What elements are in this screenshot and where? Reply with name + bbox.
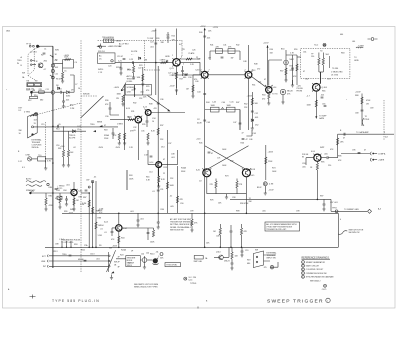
parts list note xyxy=(134,283,158,289)
svg-text:C29: C29 xyxy=(197,59,200,61)
svg-text:-150V: -150V xyxy=(98,147,104,149)
stub components mid bus xyxy=(136,213,143,227)
svg-text:6-45: 6-45 xyxy=(196,170,200,172)
svg-text:R52: R52 xyxy=(244,104,247,106)
svg-text:.005: .005 xyxy=(324,154,328,156)
tube pin ticks V24 xyxy=(134,109,146,118)
test point TP94 xyxy=(331,210,367,213)
svg-text:C99: C99 xyxy=(190,211,193,213)
svg-text:R99: R99 xyxy=(64,211,67,213)
svg-text:AUTO: AUTO xyxy=(57,187,63,190)
switch label box xyxy=(126,256,141,268)
svg-text:SEE DIAG 2: SEE DIAG 2 xyxy=(310,280,321,283)
svg-text:C08: C08 xyxy=(216,236,219,238)
svg-text:470K: 470K xyxy=(49,205,54,207)
wire cathodes xyxy=(207,177,247,194)
node ext trig xyxy=(24,111,38,116)
svg-text:GRID: GRID xyxy=(354,60,359,62)
svg-text:1W: 1W xyxy=(366,104,369,106)
svg-text:R42: R42 xyxy=(236,45,239,47)
svg-text:C97 .001: C97 .001 xyxy=(330,202,338,204)
resistor R34 xyxy=(123,133,126,145)
label td inner xyxy=(329,56,331,68)
svg-text:C20: C20 xyxy=(108,66,111,68)
tube V94 xyxy=(302,154,321,161)
label sweep labels xyxy=(320,147,334,151)
ref item 4 xyxy=(302,272,327,275)
connector labels left xyxy=(41,256,47,268)
coupling switch box SW23 xyxy=(103,39,113,43)
mark between pairs xyxy=(222,108,224,110)
svg-text:R73: R73 xyxy=(225,176,228,178)
svg-text:C-45: C-45 xyxy=(212,101,216,103)
label top bus v33a xyxy=(199,31,212,35)
stub near 158 xyxy=(157,213,160,229)
label bottom right of box xyxy=(340,219,341,221)
svg-text:5: 5 xyxy=(302,273,303,275)
label chain c52 xyxy=(251,113,258,130)
label v14 left xyxy=(144,155,152,158)
wire to connectors xyxy=(341,153,370,154)
svg-text:180K: 180K xyxy=(117,94,122,96)
capacitor C9 xyxy=(55,89,66,94)
marks near v23 top xyxy=(167,32,170,43)
svg-text:1/2: 1/2 xyxy=(197,119,200,121)
transformer box T10 xyxy=(32,157,53,161)
svg-text:.02: .02 xyxy=(73,147,76,149)
tube pin ticks V33B xyxy=(245,71,253,79)
ground R17 xyxy=(67,157,70,167)
transistor Q114 xyxy=(214,255,223,260)
dashes into v23 xyxy=(144,69,160,71)
tube V34 xyxy=(263,43,272,94)
label left rows x xyxy=(53,251,57,253)
label near v84 left xyxy=(49,196,54,208)
svg-text:1M: 1M xyxy=(76,200,79,202)
sc mark xyxy=(184,277,196,282)
label v84 row xyxy=(57,186,85,207)
svg-text:-150V: -150V xyxy=(115,147,121,149)
svg-text:C-55: C-55 xyxy=(230,101,234,103)
svg-text:C38: C38 xyxy=(171,154,174,156)
svg-text:C30: C30 xyxy=(105,116,108,118)
tunnel diode box TD1 (dashed) xyxy=(301,43,350,78)
label chain 252 more xyxy=(244,104,258,127)
label near v34 out xyxy=(272,94,278,96)
label between x167-x177 xyxy=(170,178,174,180)
svg-text:R50: R50 xyxy=(270,49,273,51)
svg-text:C7: C7 xyxy=(75,84,77,86)
svg-text:-4.7: -4.7 xyxy=(307,96,310,98)
label near tp94 xyxy=(332,208,337,210)
main lower bus xyxy=(62,212,338,214)
svg-text:464: 464 xyxy=(340,34,343,36)
svg-text:C62: C62 xyxy=(305,79,308,81)
svg-text:6DJ8: 6DJ8 xyxy=(251,169,255,171)
svg-text:TO TD: TO TD xyxy=(272,94,278,96)
svg-text:47: 47 xyxy=(364,150,366,152)
label pot row xyxy=(28,100,43,103)
label misc left2 xyxy=(56,145,76,149)
svg-text:10: 10 xyxy=(78,88,80,90)
svg-text:1 MEG: 1 MEG xyxy=(172,73,178,75)
label v23 out xyxy=(192,50,198,59)
dashed gang line xyxy=(98,40,182,70)
svg-text:330K: 330K xyxy=(181,171,186,173)
label center bus xyxy=(160,99,164,141)
svg-text:R18: R18 xyxy=(104,130,107,132)
capacitor C97 xyxy=(322,199,325,211)
bus contact a xyxy=(50,55,54,58)
svg-text:PLATE: PLATE xyxy=(189,52,196,55)
lower bus 2 xyxy=(45,246,338,248)
label d52 glyph xyxy=(251,119,253,121)
label grid2 xyxy=(172,55,184,66)
svg-text:1M: 1M xyxy=(127,69,130,71)
svg-text:C43: C43 xyxy=(207,122,210,124)
svg-text:4.7M: 4.7M xyxy=(269,184,274,186)
cluster R108 xyxy=(122,228,155,244)
svg-text:+ -: + - xyxy=(131,54,134,56)
label out bus xyxy=(249,198,252,203)
svg-text:584: 584 xyxy=(326,54,329,56)
c075 mark xyxy=(322,284,327,291)
svg-text:SW: SW xyxy=(255,250,258,252)
label divider stack xyxy=(83,197,102,237)
long vertical d xyxy=(167,130,169,213)
resistor R24 xyxy=(170,72,178,79)
wire ne2 to td xyxy=(294,49,301,57)
diode D9 xyxy=(66,91,74,98)
wire v14 out xyxy=(162,150,178,165)
label external trigger text xyxy=(32,139,42,150)
label near j25 wires xyxy=(274,262,278,267)
svg-text:SW: SW xyxy=(109,248,112,250)
svg-text:R38: R38 xyxy=(149,104,152,106)
svg-text:R2: R2 xyxy=(41,55,43,57)
label -150V row xyxy=(98,147,134,149)
svg-text:C84: C84 xyxy=(63,190,66,192)
label q114 xyxy=(216,252,230,263)
svg-text:R65: R65 xyxy=(322,91,325,93)
wire center bus xyxy=(157,66,159,168)
svg-text:+225V: +225V xyxy=(263,43,269,45)
svg-text:6.3: 6.3 xyxy=(22,167,25,169)
node junction B xyxy=(134,88,136,90)
label near gate line xyxy=(343,133,345,140)
svg-text:470: 470 xyxy=(154,108,157,110)
wire slope line xyxy=(58,130,86,132)
resistor R86 xyxy=(73,198,79,205)
svg-text:C32: C32 xyxy=(133,127,136,129)
capacitor C118 xyxy=(230,259,233,270)
svg-text:R20 2-8: R20 2-8 xyxy=(98,51,105,53)
label div bottom xyxy=(81,249,85,252)
svg-text:C15: C15 xyxy=(41,124,44,126)
neon NE2 xyxy=(284,50,294,80)
label coupling box xyxy=(102,37,121,43)
label ne2 area2 xyxy=(280,71,297,79)
label near td bottom xyxy=(305,79,331,81)
resistor R104 xyxy=(111,236,120,243)
svg-text:R81: R81 xyxy=(49,196,52,198)
label v33 xyxy=(196,70,277,90)
wire pot to bus xyxy=(33,91,53,93)
resistor R66 xyxy=(307,100,318,107)
svg-text:SW: SW xyxy=(22,73,25,75)
svg-text:5: 5 xyxy=(183,64,184,66)
svg-text:.001: .001 xyxy=(140,219,144,221)
resistor R5 network xyxy=(53,57,74,73)
svg-text:T10: T10 xyxy=(38,155,41,157)
svg-text:TO CRT GRID: TO CRT GRID xyxy=(61,242,74,244)
svg-text:270: 270 xyxy=(257,69,260,71)
label sc row xyxy=(128,263,131,265)
dark stub xyxy=(126,170,128,190)
label c24 xyxy=(150,42,154,49)
label wire c20 xyxy=(117,56,125,60)
svg-text:C45: C45 xyxy=(253,133,256,135)
extra text bottom note xyxy=(170,230,184,232)
svg-text:TRIGGER SW SHOWN AT: TRIGGER SW SHOWN AT xyxy=(170,221,193,224)
label wafer right xyxy=(114,262,117,267)
svg-text:4.7: 4.7 xyxy=(44,69,47,71)
label schmitt tubes xyxy=(199,169,255,183)
resistor R71 xyxy=(210,179,218,194)
svg-text:INPUT SW: INPUT SW xyxy=(267,258,276,260)
svg-text:6-14: 6-14 xyxy=(189,279,193,281)
svg-text:+100: +100 xyxy=(196,139,200,141)
svg-text:SWEEP GENERATOR: SWEEP GENERATOR xyxy=(306,261,326,264)
wire aux bus xyxy=(142,67,144,95)
resistor R44 R45 pair xyxy=(205,105,240,130)
svg-text:A-3: A-3 xyxy=(378,208,381,211)
tube V33B xyxy=(245,45,252,130)
label stability xyxy=(26,178,36,193)
svg-text:R12: R12 xyxy=(28,100,31,102)
svg-text:C21: C21 xyxy=(55,74,58,76)
svg-text:R31: R31 xyxy=(131,111,134,113)
label near top coupling xyxy=(131,51,138,56)
svg-text:R98 470K: R98 470K xyxy=(240,203,249,205)
svg-text:C93: C93 xyxy=(302,163,305,165)
bus contact b xyxy=(50,75,54,79)
label row y135 xyxy=(104,134,109,140)
crossover wire B xyxy=(205,146,249,171)
svg-text:D52: D52 xyxy=(255,125,258,127)
label schmitt in xyxy=(181,167,186,174)
resistor under wire xyxy=(127,63,135,79)
screen box xyxy=(125,84,151,95)
svg-text:1M: 1M xyxy=(145,60,148,62)
svg-text:R23: R23 xyxy=(139,65,142,67)
resistor R81 xyxy=(44,193,47,211)
label r11 xyxy=(26,89,49,97)
svg-text:R59: R59 xyxy=(294,49,297,51)
svg-text:10: 10 xyxy=(19,133,21,135)
label near x205 top arrow xyxy=(204,28,206,31)
pin numbers v33 xyxy=(201,70,254,72)
svg-text:.005: .005 xyxy=(207,38,211,40)
svg-text:SW: SW xyxy=(19,130,22,132)
svg-text:.005: .005 xyxy=(262,211,266,213)
auto level note xyxy=(127,75,136,83)
label bus area xyxy=(161,203,184,211)
svg-text:100K: 100K xyxy=(272,171,277,173)
label near c9 top xyxy=(75,84,80,90)
svg-text:R56: R56 xyxy=(290,66,293,68)
svg-text:470: 470 xyxy=(194,79,197,81)
supply chain right xyxy=(355,92,371,127)
svg-text:.001: .001 xyxy=(130,211,134,213)
tube pin ticks V23 xyxy=(172,58,180,66)
tube V23 xyxy=(169,29,180,96)
resistor R72 xyxy=(236,179,243,194)
svg-text:SEMICONDUCTOR TYPES: SEMICONDUCTOR TYPES xyxy=(134,286,158,288)
connector pair A xyxy=(370,152,386,156)
svg-text:C11: C11 xyxy=(46,89,49,91)
svg-text:C98: C98 xyxy=(232,197,235,199)
svg-text:SW10B: SW10B xyxy=(83,94,90,96)
tube pin ticks V84A xyxy=(70,189,77,191)
svg-text:TRIG: TRIG xyxy=(62,254,67,256)
label v24 bias xyxy=(117,111,145,126)
svg-text:R87: R87 xyxy=(83,197,86,199)
svg-text:R30: R30 xyxy=(105,100,108,102)
svg-text:1 MEG: 1 MEG xyxy=(117,124,123,126)
wire TP to bus xyxy=(39,45,53,47)
svg-text:STABILITY: STABILITY xyxy=(26,189,36,192)
svg-text:6-33: 6-33 xyxy=(196,70,200,72)
label under input wire 1 xyxy=(116,66,141,72)
svg-text:C61: C61 xyxy=(303,52,306,54)
label near dash corner xyxy=(147,38,153,40)
label lower bus xyxy=(64,211,193,214)
svg-text:.001: .001 xyxy=(131,90,135,92)
svg-text:C68: C68 xyxy=(355,113,358,115)
svg-text:R98: R98 xyxy=(236,211,239,213)
svg-text:C5: C5 xyxy=(64,71,66,73)
svg-text:C19 47: C19 47 xyxy=(117,56,123,58)
svg-text:.005: .005 xyxy=(66,100,70,102)
svg-text:AT LEFT FOR THE SWP: AT LEFT FOR THE SWP xyxy=(170,218,192,221)
junction dots lower bus xyxy=(118,199,318,215)
capacitor C101 xyxy=(230,225,233,240)
long vertical c xyxy=(157,168,159,213)
resistor R118 xyxy=(231,247,239,259)
svg-text:R84: R84 xyxy=(79,197,82,199)
svg-text:47: 47 xyxy=(246,139,248,141)
label near v104 left xyxy=(100,225,103,231)
svg-text:470: 470 xyxy=(146,90,149,92)
svg-text:150: 150 xyxy=(311,56,314,58)
svg-text:22: 22 xyxy=(163,173,165,175)
tube pin ticks V45B xyxy=(242,168,251,170)
capacitor C23 xyxy=(129,59,134,64)
label trig wire xyxy=(41,124,107,132)
svg-text:+GATE: +GATE xyxy=(378,159,385,162)
label v34 net xyxy=(262,92,270,105)
tube pin ticks V34 xyxy=(265,85,273,87)
trig level box xyxy=(165,263,181,267)
transistor Q20 xyxy=(38,63,43,68)
label v94 right xyxy=(321,162,331,168)
label top supply row xyxy=(210,45,239,47)
svg-text:470: 470 xyxy=(262,99,265,101)
wire v34 to td xyxy=(269,60,282,86)
svg-text:R9: R9 xyxy=(35,81,37,83)
svg-text:5-25: 5-25 xyxy=(118,61,122,63)
svg-text:R110: R110 xyxy=(150,254,154,256)
resistor R91 xyxy=(166,182,174,189)
svg-text:J24: J24 xyxy=(146,252,149,254)
svg-text:OPERATING MODE SW: OPERATING MODE SW xyxy=(306,272,327,275)
diamond out xyxy=(344,209,372,214)
label left margin2 xyxy=(18,130,22,153)
wire q23 emitter row xyxy=(172,73,201,75)
svg-text:R10: R10 xyxy=(34,95,37,97)
svg-text:R48: R48 xyxy=(254,64,257,66)
svg-text:R0: R0 xyxy=(99,245,101,247)
label q23 cluster2 xyxy=(188,64,197,81)
label top of sheet faint xyxy=(340,34,343,36)
label near x205 mid xyxy=(197,119,201,125)
potentiometer R10 xyxy=(30,90,35,94)
label v14 dense xyxy=(146,173,165,182)
connector pair B xyxy=(370,158,385,162)
label far left plus xyxy=(6,89,8,91)
ref item 2 xyxy=(302,264,320,267)
svg-text:1M: 1M xyxy=(213,231,216,233)
wire aux right xyxy=(286,53,297,86)
svg-text:R45: R45 xyxy=(199,143,202,145)
attenuator box xyxy=(98,53,116,64)
svg-text:TRIGGER SLOPE +INT.: TRIGGER SLOPE +INT. xyxy=(266,229,287,231)
svg-text:47: 47 xyxy=(242,133,244,135)
svg-text:220K: 220K xyxy=(104,138,109,140)
lower box right edge xyxy=(337,213,339,247)
svg-text:SLOPE: SLOPE xyxy=(69,137,76,139)
label right of td xyxy=(354,57,359,62)
svg-text:Q-164: Q-164 xyxy=(322,87,327,89)
svg-text:C113: C113 xyxy=(90,254,94,256)
svg-text:6-84: 6-84 xyxy=(79,191,83,193)
svg-text:100K: 100K xyxy=(211,105,216,107)
svg-text:R40: R40 xyxy=(199,32,202,34)
title circled digit xyxy=(326,298,330,302)
wire V33B to V34 xyxy=(252,77,266,88)
stubs on bus2 xyxy=(59,239,72,248)
svg-text:.001: .001 xyxy=(140,92,144,94)
wire trigger line xyxy=(34,126,119,128)
svg-text:C44: C44 xyxy=(197,92,200,94)
svg-text:SW1: SW1 xyxy=(55,50,59,52)
svg-text:6-8: 6-8 xyxy=(179,44,182,46)
svg-text:J11: J11 xyxy=(156,252,159,254)
mode wires xyxy=(49,256,108,266)
svg-text:47: 47 xyxy=(264,79,266,81)
wire tube row xyxy=(180,62,201,75)
svg-text:470K 1M: 470K 1M xyxy=(26,89,34,91)
svg-text:1-12: 1-12 xyxy=(18,161,22,163)
drop wires to bus xyxy=(220,240,243,248)
label above bus xyxy=(70,209,99,213)
svg-text:.05: .05 xyxy=(133,130,136,132)
svg-text:R28: R28 xyxy=(121,90,124,92)
dashed section divider xyxy=(80,40,82,273)
bottom row dense labels xyxy=(55,244,101,248)
ref item 5 xyxy=(302,275,334,278)
